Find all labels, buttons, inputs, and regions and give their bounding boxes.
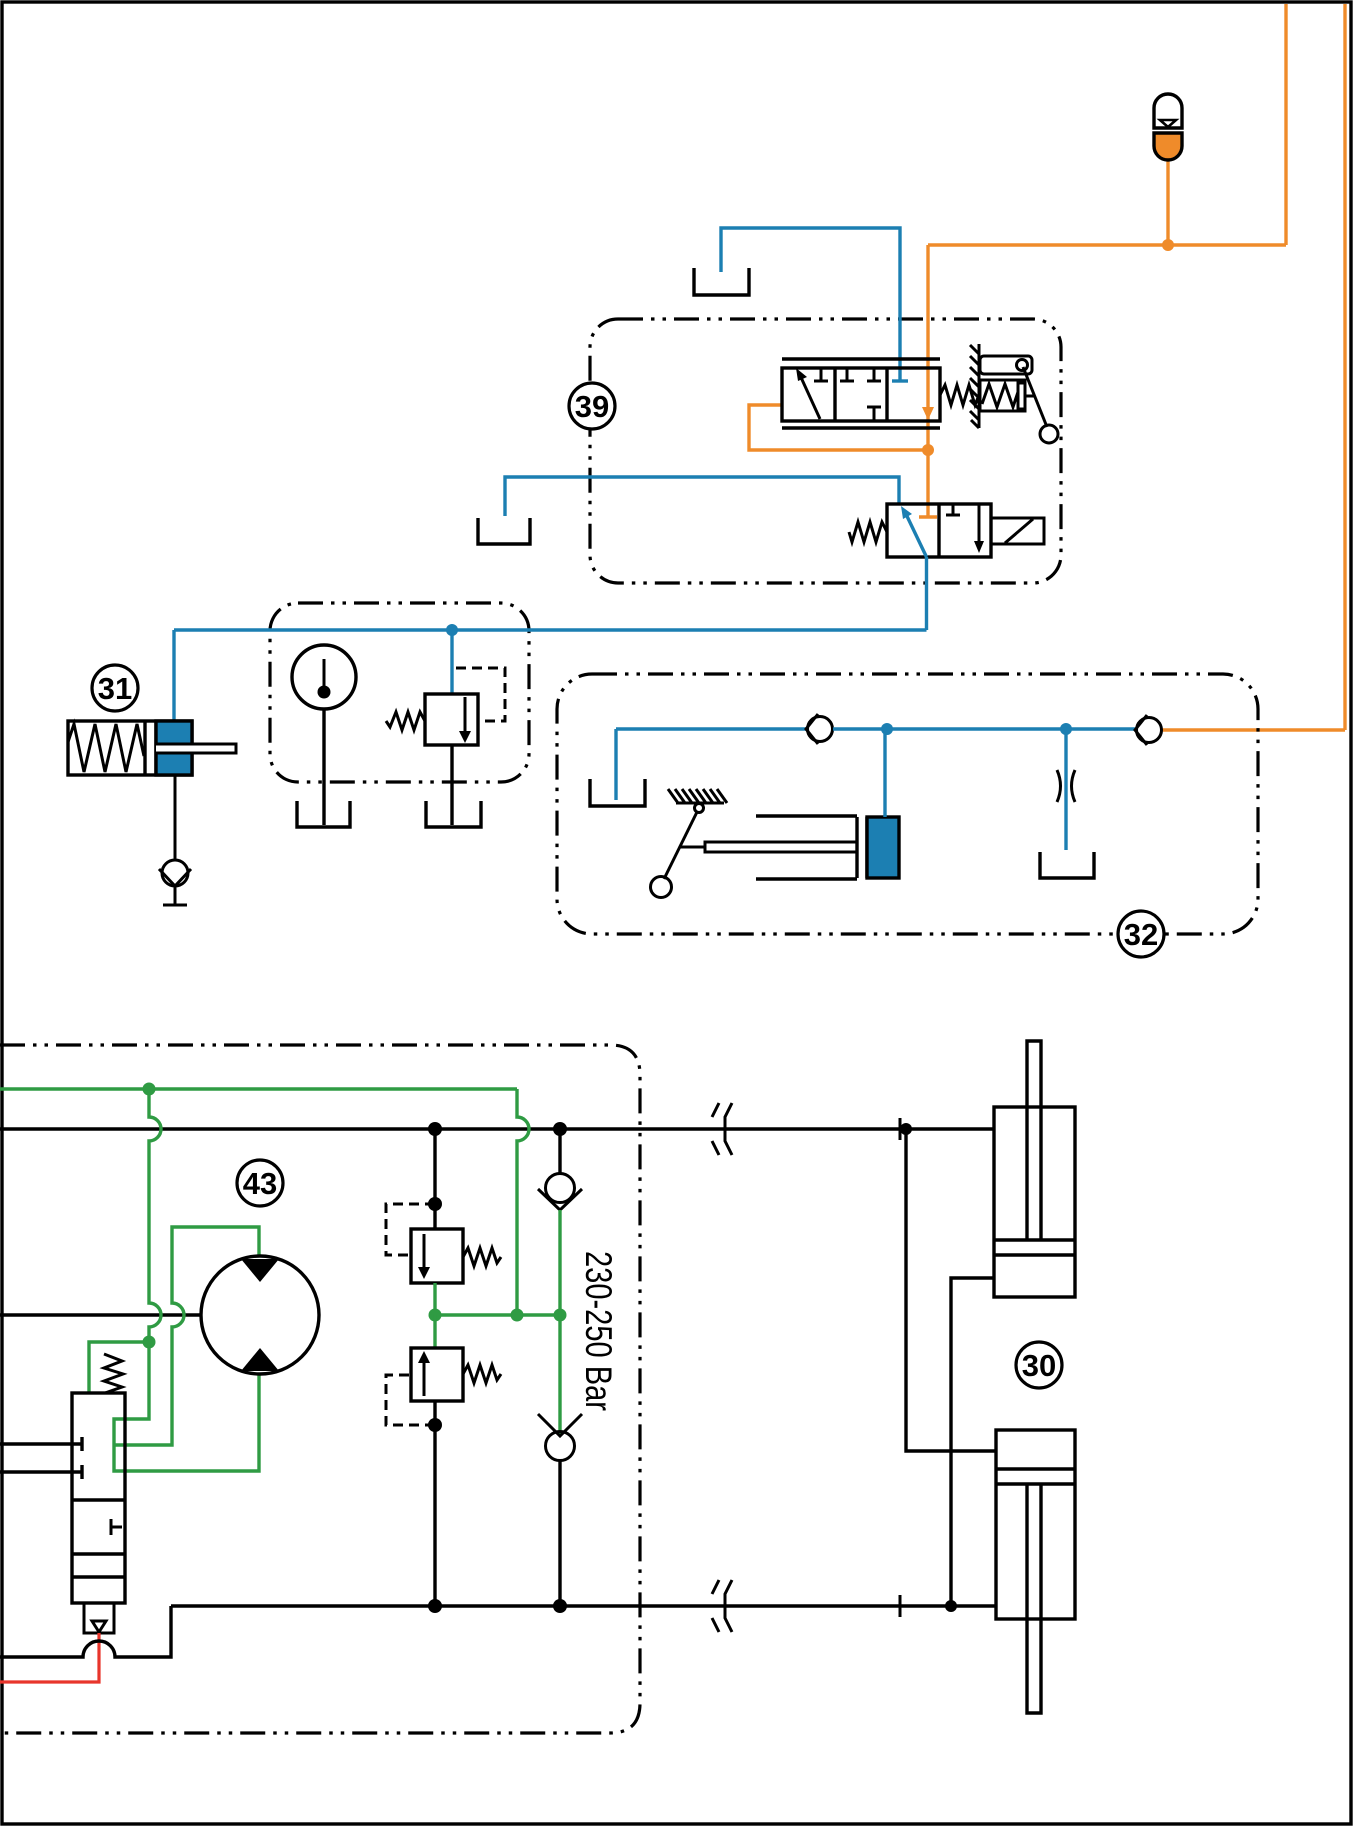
orange pilot bar at 2/2 valve	[919, 515, 937, 518]
valve left ports (blocked)	[0, 1437, 82, 1451]
pedal anchor hatching	[676, 802, 724, 805]
cylinder C2 (bottom)	[996, 1430, 1075, 1619]
port tick and junction (bottom)	[899, 1595, 902, 1617]
svg-text:30: 30	[1022, 1348, 1056, 1383]
blue line to piston	[883, 729, 886, 817]
control valve stack body	[72, 1393, 125, 1603]
tank for blue line (left of box 39)	[478, 518, 530, 544]
V2 solenoid	[991, 518, 1044, 544]
junction node (relief branch)	[446, 624, 458, 636]
spring in cylinder	[68, 724, 144, 772]
junction node (rail / CV3)	[553, 1122, 567, 1136]
accumulator line down	[1166, 158, 1169, 245]
crossover to cylinder C2 head side	[906, 1129, 996, 1451]
green supply rail	[0, 1087, 517, 1090]
black return line with hop over red	[0, 1606, 171, 1657]
blue port bar in valve right box	[892, 379, 908, 382]
pedal link to rod	[679, 846, 705, 849]
red pilot line	[0, 1633, 99, 1682]
relief valve RV1 pilot (dashed)	[386, 1204, 435, 1255]
relief valve RV1	[411, 1229, 463, 1283]
enclosure gauge unit	[270, 603, 529, 782]
label 43	[237, 1160, 283, 1206]
blue manifold line	[174, 628, 927, 631]
main valve U1: bottom rail	[782, 426, 940, 429]
junction node (gallery right)	[554, 1309, 567, 1322]
label 31	[92, 665, 138, 711]
enclosure 43 (open at left edge of page)	[0, 1045, 640, 1733]
blue feed to cylinder	[172, 630, 175, 721]
junction node (orifice branch)	[1060, 723, 1072, 735]
orange supply horizontal	[928, 243, 1286, 246]
svg-text:39: 39	[575, 389, 609, 424]
green drop left (to valve pilot) with hops	[149, 1089, 161, 1342]
orange riser to top edge (left)	[1284, 4, 1287, 245]
tank (top, pilot valve drain)	[694, 268, 749, 295]
junction node (green rail tap)	[143, 1083, 156, 1096]
manual lever with ball	[1023, 367, 1047, 427]
junction node (valve pilot tap)	[143, 1336, 156, 1349]
pressure gauge	[292, 645, 356, 709]
detent wall hatched	[978, 344, 981, 428]
black return rail to cylinders	[171, 1604, 996, 1607]
gauge tank	[297, 801, 350, 827]
blue drain line to tank	[721, 228, 900, 381]
blue drop to reservoir tank	[614, 729, 617, 800]
black motor feed rail	[0, 1313, 201, 1316]
junction node (gallery centre)	[511, 1309, 524, 1322]
junction node (RV2 pilot tap)	[428, 1418, 442, 1432]
enclosure 39	[590, 319, 1061, 583]
green cross gallery	[435, 1283, 560, 1315]
orifice tank	[1040, 852, 1094, 878]
orange riser to top edge (right, feeds box 32)	[1343, 4, 1346, 730]
crossover to cylinder C1 rod side	[951, 1278, 994, 1606]
orifice symbol	[1057, 770, 1061, 802]
port tick and junction (top)	[899, 1118, 902, 1140]
orange pilot drop into valve	[926, 245, 929, 516]
detent spring box	[980, 380, 1025, 411]
orange junction dot	[922, 444, 934, 456]
label 32	[1118, 911, 1164, 957]
line break marks (top rail)	[712, 1103, 732, 1155]
check valve CV1	[808, 717, 833, 742]
orange line into box 32 check valve	[1161, 728, 1345, 731]
blue outlet down	[925, 557, 928, 630]
master cylinder blue head	[867, 817, 899, 878]
svg-text:43: 43	[243, 1166, 277, 1201]
check valve CV2	[1137, 718, 1162, 743]
cylinder 31 body	[68, 721, 192, 775]
piston plate	[145, 721, 156, 775]
line break marks (bottom rail)	[712, 1580, 732, 1632]
junction node (return rail / CV4)	[553, 1599, 567, 1613]
green drop right (to relief gallery) with hop	[517, 1089, 529, 1315]
accumulator	[1154, 94, 1182, 160]
reservoir tank	[590, 779, 645, 806]
black pressure rail (to cylinder 30 top)	[0, 1127, 994, 1130]
anti-cavitation check CV3 (top)	[558, 1129, 561, 1174]
junction node (rail / RV1)	[428, 1122, 442, 1136]
junction node (gallery left)	[429, 1309, 442, 1322]
main valve U1 body	[782, 368, 940, 421]
green path motor top to valve	[114, 1227, 259, 1445]
V2 right box: blocked T and down arrow	[946, 504, 960, 515]
spring (valve centering)	[940, 385, 979, 405]
orifice leg	[1064, 729, 1067, 850]
label 39	[569, 383, 615, 429]
centre box T ports	[840, 368, 854, 381]
pedal lever	[664, 812, 697, 879]
piston rod	[156, 744, 236, 753]
svg-text:32: 32	[1124, 917, 1158, 952]
relief gallery bottom link	[433, 1401, 436, 1606]
cylinder C1 (top)	[994, 1107, 1075, 1297]
V2 body	[887, 504, 991, 557]
main valve U1: top rail	[782, 357, 940, 360]
junction orange	[1162, 239, 1174, 251]
relief tank	[426, 801, 481, 827]
junction node (master cylinder branch)	[881, 723, 893, 735]
pilot head with cone	[84, 1603, 114, 1633]
left box T port	[814, 368, 828, 381]
drain line with check valve	[174, 775, 177, 860]
blue header line left segment	[616, 727, 806, 730]
label 30	[1016, 1342, 1062, 1388]
relief valve (gauge box)	[450, 630, 453, 694]
blue inlet line	[505, 477, 899, 516]
junction node (return rail / RV2)	[428, 1599, 442, 1613]
orange left loop from valve port	[749, 405, 928, 450]
push rod	[705, 842, 857, 852]
T symbol in second section	[111, 1519, 122, 1535]
svg-text:31: 31	[98, 671, 132, 706]
detent top housing	[980, 356, 1032, 374]
hydraulic motor M1	[201, 1256, 319, 1374]
valve spring (diagonal)	[104, 1354, 123, 1393]
green branch to valve top	[89, 1342, 149, 1392]
master cylinder barrel	[756, 816, 857, 879]
blue piston block	[156, 721, 192, 775]
anti-cavitation check CV4 (bottom)	[558, 1315, 561, 1436]
junction node (RV1 pilot tap)	[428, 1197, 442, 1211]
green path valve to motor bottom	[114, 1342, 259, 1471]
relief gallery top link	[433, 1129, 436, 1229]
master cylinder piston plate	[857, 817, 867, 878]
svg-text:230-250 Bar: 230-250 Bar	[578, 1251, 619, 1411]
relief valve RV2	[433, 1315, 436, 1348]
blue header middle segment	[833, 727, 1135, 730]
relief valve RV2 pilot (dashed)	[386, 1375, 435, 1425]
orange arrow into valve	[922, 407, 934, 420]
enclosure 32	[557, 674, 1258, 934]
pedal pivot	[695, 804, 704, 813]
V2 left box: blue flow arrow	[905, 512, 927, 557]
left box arrow	[799, 373, 820, 419]
V2 spring	[849, 522, 887, 542]
